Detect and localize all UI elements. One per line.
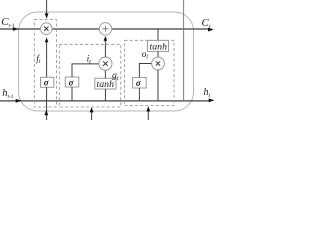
wire: input multiplier up to adder with arrowhead bbox=[104, 41, 106, 57]
wire: input sigma down to h line bbox=[71, 87, 73, 101]
wire: tanh up into multiplier bbox=[104, 70, 106, 78]
wire: output multiplier down to h line bbox=[157, 70, 159, 101]
wire: output sigma down to h line bbox=[138, 88, 140, 101]
sigma box (input gate) bbox=[65, 77, 79, 87]
wire: sigma(forget) up to multiplier with arrowhead bbox=[46, 43, 48, 78]
wire: output sigma up then right into output multiplier bbox=[139, 64, 151, 78]
LSTM cell boundary (rounded rect) bbox=[19, 12, 194, 111]
arrowhead C exit bbox=[208, 28, 214, 32]
sigma box (output gate) bbox=[133, 78, 147, 89]
adder circle on C line bbox=[99, 23, 111, 35]
svg-text:tanh: tanh bbox=[150, 43, 168, 53]
wire: tanh down to h line bbox=[104, 89, 106, 101]
svg-text:tanh: tanh bbox=[97, 80, 115, 90]
multiplier (output) circle bbox=[152, 57, 165, 70]
wire: C line branch down into tanh (output path) bbox=[157, 29, 159, 40]
input gate dashed group box bbox=[59, 44, 121, 107]
wire: top input arrow into forget group bbox=[46, 0, 48, 14]
wire: forget sigma down through h line to bottom, x_t input arrowhead bbox=[46, 87, 48, 120]
wire: input sigma up then right into multiplier bbox=[72, 64, 99, 77]
tanh box (output path) bbox=[148, 40, 169, 51]
wire: tanh down into output multiplier bbox=[157, 51, 159, 57]
arrowhead h exit bbox=[209, 98, 215, 102]
multiplier (forget) circle on C line bbox=[41, 23, 53, 35]
sigma box (forget gate) bbox=[41, 77, 54, 87]
arrowhead C entry bbox=[13, 27, 19, 31]
multiplier (input) circle bbox=[99, 57, 112, 70]
output gate dashed group box bbox=[125, 40, 175, 105]
arrowhead h entry bbox=[16, 99, 22, 103]
wire: h_t branch going up and out of cell top bbox=[183, 0, 185, 101]
wire: x_t input arrow into output group (bottom) bbox=[147, 107, 149, 120]
wire: cell-state line C (top horizontal) bbox=[0, 28, 212, 30]
forget gate dashed group box bbox=[34, 20, 56, 107]
wire: hidden-state line h (bottom horizontal) bbox=[0, 100, 211, 102]
tanh box (candidate g) bbox=[95, 78, 116, 89]
wire: x_t input arrow into input group (bottom) bbox=[91, 108, 93, 120]
